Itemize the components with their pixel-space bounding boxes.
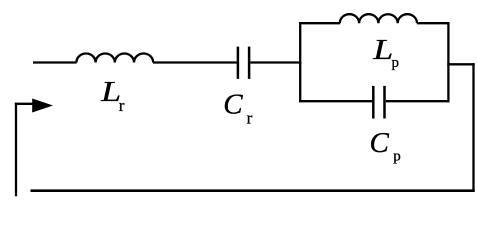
capacitor Cr: [238, 47, 249, 79]
wire C_r to tank: [250, 61, 301, 63]
capacitor Cp: [373, 86, 384, 119]
wire output right: [447, 63, 474, 65]
wire tank top edge right: [417, 22, 450, 24]
arrowhead input: [32, 99, 53, 113]
wire tank bottom edge left: [299, 100, 372, 102]
wire feedback left vertical: [15, 103, 17, 197]
label Lp: [372, 34, 399, 71]
inductor Lr: [76, 54, 153, 63]
svg-text:C: C: [223, 89, 243, 121]
svg-text:r: r: [119, 96, 125, 115]
wire tank left edge: [299, 22, 301, 102]
wire bottom: [31, 189, 475, 192]
wire L_r to C_r: [153, 61, 237, 63]
wire input left: [33, 61, 77, 63]
inductor Lp: [340, 14, 417, 23]
svg-text:C: C: [370, 127, 390, 159]
wire tank bottom edge right: [386, 100, 450, 102]
svg-text:L: L: [372, 34, 393, 66]
wire tank top edge left: [299, 22, 340, 24]
svg-text:p: p: [393, 149, 401, 165]
wire arrow stem: [15, 103, 40, 105]
label Lr: [100, 76, 125, 115]
svg-text:r: r: [247, 109, 253, 128]
label Cr: [223, 89, 252, 128]
svg-text:p: p: [392, 55, 400, 71]
wire tank right edge: [447, 22, 449, 102]
wire right vertical: [472, 63, 474, 192]
label Cp: [370, 127, 401, 165]
